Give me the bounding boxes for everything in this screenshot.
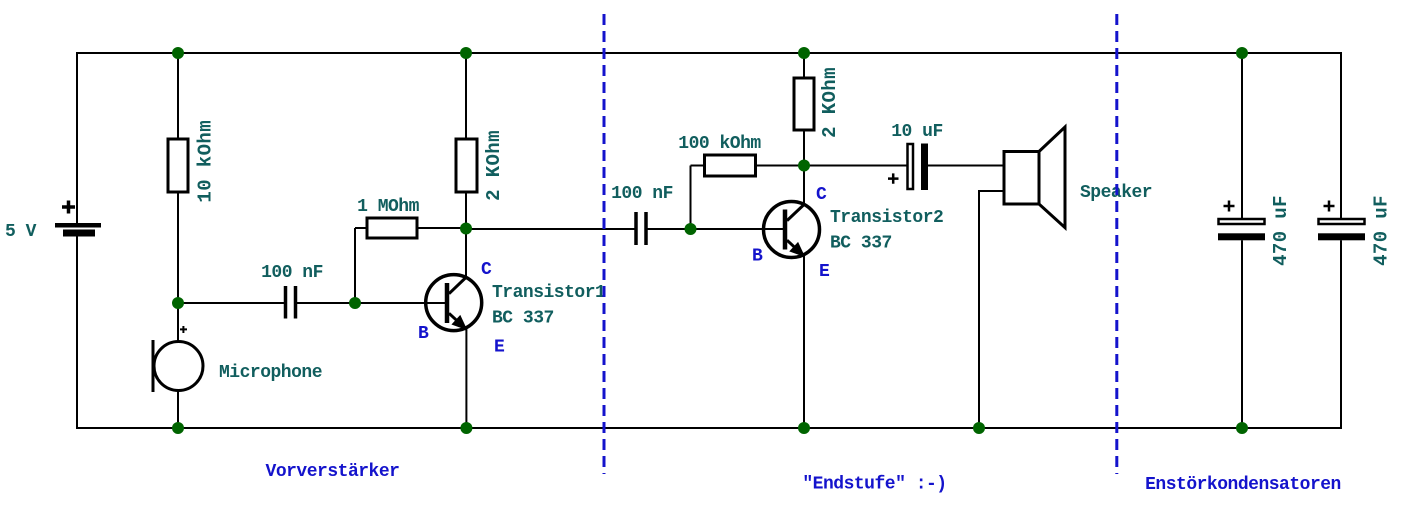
capacitor C3 10 uF bbox=[888, 144, 928, 191]
wire speaker bottom terminal bbox=[979, 191, 1004, 428]
node dot bottom rail Q1 emitter bbox=[460, 422, 472, 434]
speaker LS1 bbox=[1004, 127, 1065, 228]
svg-text:470 uF: 470 uF bbox=[1371, 195, 1393, 266]
svg-text:Enstörkondensatoren: Enstörkondensatoren bbox=[1145, 475, 1341, 495]
wire branch R5 top (top rail to R5) bbox=[803, 53, 805, 78]
capacitor C5 470 uF bbox=[1318, 201, 1365, 241]
node dot top rail R1 bbox=[172, 47, 184, 59]
wire to R4 left bbox=[691, 165, 705, 167]
svg-text:E: E bbox=[494, 338, 505, 358]
svg-text:"Endstufe" :-): "Endstufe" :-) bbox=[802, 475, 946, 495]
wire to R2 left bbox=[355, 227, 367, 229]
node dot B (C1 / R2 / Q1 base) bbox=[349, 297, 361, 309]
wire node B to Q1 base bbox=[355, 302, 445, 304]
wire C2 to node D bbox=[648, 228, 691, 230]
wire branch R1 top (top rail to R1) bbox=[177, 53, 179, 139]
svg-text:C: C bbox=[481, 260, 492, 280]
node dot C (R3 / R2 / Q1 collector) bbox=[460, 223, 472, 235]
divider dashed line 1 bbox=[603, 14, 606, 474]
svg-text:100 kOhm: 100 kOhm bbox=[678, 134, 761, 154]
resistor R1 10 kOhm bbox=[168, 139, 188, 192]
transistor Q2 BC337 bbox=[764, 202, 820, 258]
wire R5 bottom through node E to Q2 collector bbox=[803, 130, 805, 204]
wire right edge upper (top rail to C5) bbox=[1340, 52, 1342, 219]
svg-text:E: E bbox=[819, 262, 830, 282]
node dot bottom rail C4 bbox=[1236, 422, 1248, 434]
svg-text:5 V: 5 V bbox=[5, 222, 37, 242]
node dot top rail R3 bbox=[460, 47, 472, 59]
svg-text:B: B bbox=[752, 247, 763, 267]
svg-text:B: B bbox=[418, 324, 429, 344]
wire Q2 emitter to bottom rail bbox=[803, 255, 805, 428]
wire left edge upper (battery to top rail) bbox=[76, 52, 78, 223]
wire microphone to bottom rail bbox=[177, 391, 179, 429]
svg-text:Vorverstärker: Vorverstärker bbox=[266, 462, 400, 482]
microphone MIC1 bbox=[153, 326, 203, 392]
wire node B up to R2 bbox=[354, 228, 356, 303]
wire node D up to R4 bbox=[690, 166, 692, 230]
svg-text:2 KOhm: 2 KOhm bbox=[483, 130, 505, 201]
svg-text:BC 337: BC 337 bbox=[830, 234, 892, 254]
wire C3 to speaker bbox=[928, 165, 1004, 167]
svg-text:10 uF: 10 uF bbox=[891, 122, 943, 142]
resistor R2 1 MOhm bbox=[367, 218, 417, 238]
node dot bottom rail mic bbox=[172, 422, 184, 434]
divider dashed line 2 bbox=[1115, 14, 1118, 474]
svg-text:Transistor1: Transistor1 bbox=[492, 283, 606, 303]
node dot top rail C4 bbox=[1236, 47, 1248, 59]
svg-text:1 MOhm: 1 MOhm bbox=[357, 197, 420, 217]
capacitor C4 470 uF bbox=[1218, 201, 1265, 241]
node dot E (R5 / R4 / C3 / Q2 collector) bbox=[798, 160, 810, 172]
resistor R5 2 KOhm bbox=[794, 78, 814, 130]
svg-text:100 nF: 100 nF bbox=[611, 184, 673, 204]
transistor Q1 BC337 bbox=[426, 275, 482, 331]
wire top rail to capacitor C4 bbox=[1241, 53, 1243, 219]
svg-text:100 nF: 100 nF bbox=[261, 263, 323, 283]
wire node E to capacitor C3 bbox=[804, 165, 907, 167]
capacitor C1 100 nF bbox=[286, 286, 296, 319]
svg-text:BC 337: BC 337 bbox=[492, 309, 554, 329]
svg-text:2 KOhm: 2 KOhm bbox=[819, 67, 841, 138]
node dot top rail R5 bbox=[798, 47, 810, 59]
node dot bottom rail speaker bbox=[973, 422, 985, 434]
node dot bottom rail Q2 emitter bbox=[798, 422, 810, 434]
wire Q1 emitter to bottom rail bbox=[465, 329, 467, 428]
wire top rail bbox=[77, 52, 1341, 54]
battery B1 5V bbox=[55, 201, 101, 237]
wire branch R3 top (top rail to R3) bbox=[465, 53, 467, 139]
node dot D (C2 / R4 / Q2 base) bbox=[685, 223, 697, 235]
wire node D to Q2 base bbox=[691, 228, 784, 230]
wire R1 bottom to microphone bbox=[177, 192, 179, 342]
wire R2 right to node C bbox=[417, 227, 466, 229]
resistor R4 100 kOhm bbox=[705, 155, 756, 176]
wire R3 bottom through node C to Q1 collector bbox=[465, 192, 467, 278]
wire C4 to bottom rail bbox=[1241, 240, 1243, 428]
wire R4 right to node E bbox=[756, 165, 805, 167]
svg-text:C: C bbox=[816, 185, 827, 205]
svg-text:Microphone: Microphone bbox=[219, 363, 322, 383]
wire bottom rail bbox=[77, 427, 1341, 429]
wire left edge lower (battery to bottom rail) bbox=[76, 237, 78, 430]
svg-text:10 kOhm: 10 kOhm bbox=[195, 120, 217, 203]
wire node C to capacitor C2 bbox=[466, 228, 635, 230]
svg-text:470 uF: 470 uF bbox=[1270, 195, 1292, 266]
wire C1 to node B bbox=[297, 302, 355, 304]
svg-text:Transistor2: Transistor2 bbox=[830, 208, 943, 228]
capacitor C2 100 nF bbox=[636, 212, 646, 245]
resistor R3 2 KOhm bbox=[456, 139, 477, 192]
wire right edge lower (C5 to bottom rail) bbox=[1340, 240, 1342, 429]
wire node A to capacitor C1 bbox=[178, 302, 284, 304]
node dot A (mic / C1) bbox=[172, 297, 184, 309]
